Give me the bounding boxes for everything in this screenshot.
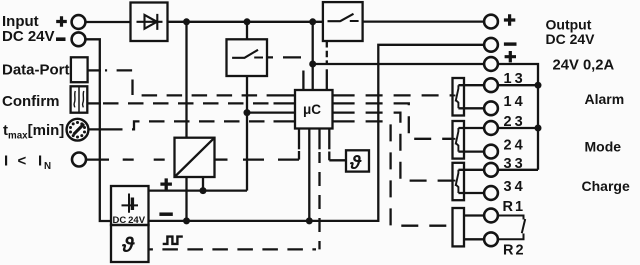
wire relay to terminal 14: [458, 107, 484, 109]
wire S1 down to battery + rail: [246, 76, 248, 191]
terminal 14: [484, 101, 498, 115]
Confirm box: [71, 86, 88, 112]
terminal 13: [484, 78, 498, 92]
wire DC/DC to + rail: [202, 177, 204, 191]
uC left pin 2: [274, 102, 296, 104]
wire uC to temperature sensor: [328, 129, 330, 150]
svg-text:DC 24V: DC 24V: [2, 28, 55, 45]
battery box: [111, 186, 149, 225]
svg-text:14: 14: [504, 94, 526, 110]
uC left pin 4: [274, 120, 296, 122]
wire 24V 0,2A output: [313, 63, 485, 65]
svg-text:DC 24V: DC 24V: [546, 31, 596, 47]
battery minus sign: [159, 212, 172, 216]
svg-text:R1: R1: [503, 199, 526, 215]
uC U1 box: [295, 90, 333, 129]
node J4 battery sense tap: [244, 109, 251, 116]
diode D1 symbol: [137, 14, 163, 30]
switch S2 box (output switch): [323, 2, 363, 41]
node J2: [244, 18, 251, 25]
svg-text:34: 34: [504, 179, 526, 195]
uC top-right pin: [326, 69, 328, 90]
terminal 34: [484, 186, 498, 200]
switch S2 contact: [328, 14, 359, 21]
Confirm box divider: [78, 86, 80, 112]
current limit line I<IN to DC/DC: [86, 158, 109, 160]
DC/DC converter diagonal: [175, 138, 215, 177]
svg-text:μC: μC: [303, 102, 321, 117]
aux plus sign: [505, 51, 516, 62]
alarm relay contact box: [453, 78, 465, 116]
svg-text:ϑ: ϑ: [349, 153, 362, 174]
switch S1 box (charge switch): [227, 39, 268, 76]
svg-text:R2: R2: [503, 243, 526, 259]
terminal 24: [484, 145, 498, 159]
control line remote R1R2 to uC: [333, 120, 355, 122]
input minus bus wire: [85, 39, 111, 221]
mode relay contact box: [453, 121, 465, 159]
output minus sign: [504, 42, 517, 45]
control line uC to alarm relay: [333, 94, 355, 96]
output plus sign: [504, 14, 515, 25]
battery symbol: [122, 194, 139, 213]
terminal R2: [484, 232, 498, 246]
rotary dots: [69, 121, 86, 139]
wire to terminal R1: [464, 214, 484, 216]
svg-text:Charge: Charge: [582, 178, 630, 194]
terminal R1: [484, 209, 498, 223]
wire relay to terminal 24: [458, 150, 484, 152]
DC/DC converter U2 box: [175, 138, 215, 177]
Confirm squiggle right: [83, 91, 84, 107]
rotary pointer: [74, 124, 84, 134]
output terminal -: [484, 38, 498, 52]
battery plus sign: [160, 178, 172, 189]
alarm relay contact: [453, 85, 459, 108]
svg-text:Confirm: Confirm: [2, 93, 60, 110]
node J1: [183, 18, 190, 25]
uC pin to current sense line: [298, 129, 300, 150]
mode relay contact: [453, 128, 459, 152]
Confirm squiggle left: [74, 91, 75, 107]
input minus sign: [56, 37, 66, 41]
control line uC to mode relay: [333, 102, 355, 104]
wire J3 down to uC with 24V 0,2A tap: [312, 22, 314, 90]
charge relay contact box: [453, 163, 465, 200]
wire input+ to diode: [85, 21, 130, 23]
uC top-left pin: [302, 71, 304, 91]
svg-text:Mode: Mode: [585, 138, 622, 154]
svg-text:24: 24: [504, 138, 526, 154]
control line S1 to uC (dashed): [267, 56, 303, 58]
node J5: [200, 187, 207, 194]
svg-text:ϑ: ϑ: [121, 234, 135, 257]
svg-text:24V 0,2A: 24V 0,2A: [553, 57, 615, 73]
node J3: [309, 18, 316, 25]
control line uC charge pulse (dashed down): [318, 129, 320, 150]
current sense line DC/DC to uC area: [215, 158, 228, 160]
Data-Port box: [71, 57, 88, 82]
terminal 33: [484, 163, 498, 177]
input terminal -: [72, 32, 86, 46]
control line Data-Port to uC: [88, 69, 101, 71]
control line tmax selector to uC: [89, 128, 110, 130]
svg-text:23: 23: [504, 114, 526, 130]
wire 13 to feed bus: [498, 84, 538, 86]
input plus sign: [56, 16, 67, 27]
node J7: [306, 217, 313, 224]
remote switch R1-R2: [498, 216, 525, 240]
wire relay to terminal 13: [458, 84, 484, 86]
svg-text:13: 13: [504, 71, 526, 87]
battery + rail: [149, 189, 248, 191]
battery - rail and wire to output minus: [149, 45, 485, 221]
wire relay to terminal 33: [458, 169, 484, 171]
charge relay contact: [453, 170, 459, 193]
svg-text:Output: Output: [546, 17, 592, 33]
charge pulse symbol: [163, 237, 183, 244]
svg-text:33: 33: [504, 156, 526, 172]
wire relay to terminal 34: [458, 192, 484, 194]
control line uC to charge relay: [333, 111, 355, 113]
node J8: [309, 61, 316, 68]
wire 0,2A to contact feed bus: [498, 64, 538, 170]
output terminal +: [484, 15, 498, 29]
switch S1 contact: [232, 50, 263, 58]
main + rail from diode to switch S2: [168, 21, 323, 23]
wire to terminal R2: [464, 238, 484, 240]
current limit indicator circle: [72, 153, 86, 167]
wire DC/DC to - rail: [185, 177, 187, 221]
terminal + 24V 0,2A: [484, 57, 498, 71]
battery voltage sense line (solid): [247, 111, 295, 113]
wire uC ground pin to - rail: [308, 129, 310, 221]
node J6: [183, 217, 190, 224]
svg-text:Data-Port: Data-Port: [2, 62, 70, 79]
temperature sensor box: [346, 150, 369, 171]
wire J2 down to switch S1: [246, 22, 248, 40]
battery temperature dashed line: [149, 248, 316, 250]
input terminal +: [72, 15, 86, 29]
wire 23 to feed bus: [498, 127, 538, 129]
node feed 23: [535, 125, 542, 132]
wire relay to terminal 23: [458, 127, 484, 129]
svg-text:Alarm: Alarm: [585, 91, 625, 107]
wire S2 to output + terminal: [363, 20, 485, 22]
control line S2 to uC (dashed): [326, 41, 328, 65]
wire 33 to feed bus: [498, 169, 538, 171]
node feed 13: [535, 82, 542, 89]
uC left pin 1: [274, 94, 296, 96]
battery temperature box: [111, 225, 149, 262]
wire J1 down to DC/DC converter: [185, 22, 187, 138]
terminal 23: [484, 121, 498, 135]
diode D1 box: [131, 3, 168, 42]
remote connector box R1R2: [453, 208, 465, 246]
tmax rotary selector: [67, 119, 89, 141]
control line Confirm to uC: [87, 102, 101, 104]
